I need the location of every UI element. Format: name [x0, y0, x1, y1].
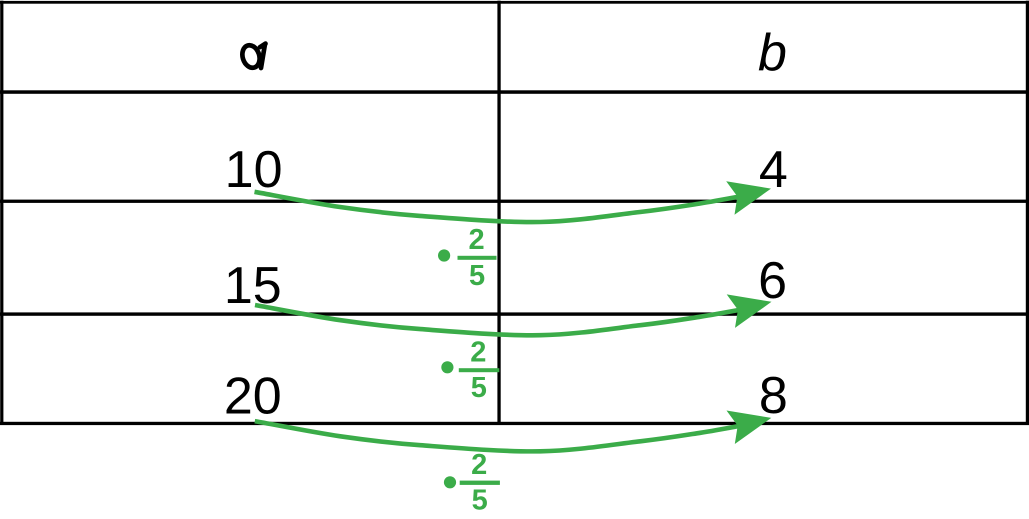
- multiply label 3: dot 2/5: [444, 449, 500, 517]
- table right border: [1026, 1, 1029, 425]
- multiply label 1: dot 2/5: [438, 224, 497, 292]
- label 2 fraction bar: [459, 368, 500, 372]
- table row line 2: [0, 312, 1029, 315]
- svg-text:2: 2: [470, 337, 486, 369]
- arrow 3 tail curve: [255, 421, 749, 451]
- svg-text:8: 8: [759, 367, 788, 425]
- table row line 1: [0, 200, 1029, 203]
- svg-text:2: 2: [468, 224, 484, 256]
- arrow 2 head: [727, 294, 772, 328]
- label 1 fraction bar: [458, 256, 497, 260]
- multiply label 2: dot 2/5: [441, 337, 499, 405]
- arrow 2: from 15 to 6: [255, 294, 772, 335]
- arrow 3: from 20 to 8: [255, 411, 772, 452]
- svg-text:5: 5: [469, 260, 485, 292]
- svg-text:5: 5: [472, 485, 488, 517]
- svg-text:5: 5: [471, 372, 487, 404]
- arrow 1 tail curve: [255, 192, 749, 222]
- table header divider line: [0, 90, 1029, 94]
- label 3 dot: [444, 476, 456, 488]
- table center column divider: [497, 1, 500, 425]
- header letter a (italic, single-storey): [240, 43, 266, 70]
- svg-text:b: b: [758, 24, 787, 82]
- table bottom border: [0, 422, 1029, 425]
- svg-text:20: 20: [224, 368, 282, 426]
- label 1 dot: [438, 249, 450, 261]
- arrow 2 tail curve: [255, 305, 749, 335]
- svg-text:2: 2: [471, 449, 487, 481]
- arrow 3 head: [727, 411, 772, 445]
- label 3 fraction bar: [460, 481, 500, 485]
- label 2 dot: [441, 361, 453, 373]
- svg-text:10: 10: [225, 141, 283, 199]
- arrow 1 head: [726, 181, 771, 215]
- table left border: [0, 1, 3, 425]
- arrow 1: from 10 to 4: [255, 181, 772, 222]
- table top border: [0, 1, 1029, 4]
